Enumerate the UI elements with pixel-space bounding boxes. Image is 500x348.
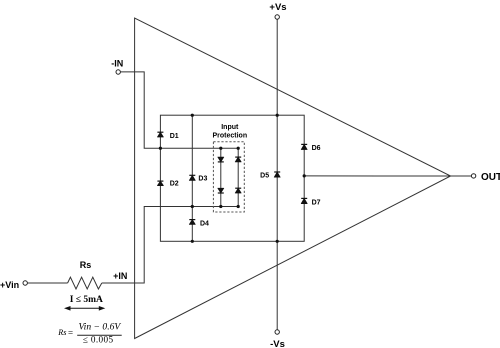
diode D1 [157, 132, 163, 137]
junction -Vs bottom rail [276, 240, 279, 243]
protection circuit outer box [160, 115, 304, 241]
diode D2 [157, 181, 163, 186]
diode D3 [189, 175, 195, 180]
terminal -Vs [275, 330, 279, 334]
junction -IN D1 D2 [159, 147, 162, 150]
label Input Protection [212, 124, 247, 140]
terminal OUT [471, 174, 475, 178]
terminal +Vs [275, 15, 279, 19]
svg-text:D6: D6 [312, 145, 321, 152]
clamp diode down lower-left [218, 188, 224, 193]
svg-text:+Vin: +Vin [0, 280, 19, 290]
svg-text:+IN: +IN [113, 271, 127, 281]
formula Rs = (Vin - 0.6V) / <=0.005 [57, 321, 121, 344]
svg-text:D7: D7 [312, 199, 321, 206]
op-amp U1 triangle body [135, 18, 451, 339]
svg-text:Input: Input [221, 124, 239, 131]
junction +Vs top rail [276, 114, 279, 117]
diode D6 [301, 144, 307, 149]
junction clamp top-right [237, 147, 240, 150]
svg-text:=: = [68, 327, 73, 337]
wire clamp left column [220, 148, 222, 206]
svg-text:-IN: -IN [111, 59, 123, 69]
wire tip to OUT terminal [451, 175, 472, 177]
junction D3 top rail [191, 114, 194, 117]
svg-text:+Vs: +Vs [269, 2, 286, 13]
junction clamp bottom-right [237, 205, 240, 208]
diode D4 [189, 220, 195, 225]
svg-text:Rs: Rs [80, 260, 92, 270]
svg-text:≤ 0.005: ≤ 0.005 [83, 335, 114, 345]
svg-text:OUT: OUT [481, 172, 500, 183]
wire output to triangle tip [304, 175, 450, 177]
svg-text:D3: D3 [198, 176, 207, 183]
clamp diode down upper-left [218, 157, 224, 162]
current range arrow [64, 306, 105, 311]
svg-text:Vin − 0.6V: Vin − 0.6V [79, 321, 122, 332]
diode D5 [274, 172, 280, 177]
resistor Rs [68, 277, 102, 289]
svg-text:D2: D2 [170, 181, 179, 188]
clamp diode up lower-right [235, 188, 241, 193]
wire -IN to protection box top node [120, 72, 238, 148]
svg-text:D1: D1 [170, 133, 179, 140]
wire clamp right column [237, 148, 239, 206]
terminal -IN [116, 70, 120, 74]
diode D7 [301, 198, 307, 203]
svg-text:Rs: Rs [57, 328, 66, 337]
svg-text:-Vs: -Vs [270, 339, 285, 348]
wire +Vs rail vertical [276, 19, 278, 329]
wire D3 D4 branch vertical [191, 115, 193, 241]
junction clamp top-left [219, 147, 222, 150]
wire +Vin to resistor [27, 282, 67, 284]
wire resistor to protection box bottom node [102, 207, 238, 284]
junction D4 bottom rail [191, 240, 194, 243]
terminal +Vin [23, 281, 27, 285]
svg-text:Protection: Protection [212, 133, 247, 140]
svg-text:D5: D5 [260, 172, 269, 179]
junction +IN D3 D4 [191, 205, 194, 208]
svg-text:I ≤ 5mA: I ≤ 5mA [70, 295, 103, 305]
junction output node [303, 174, 306, 177]
input protection dashed box [213, 142, 244, 212]
clamp diode up upper-right [235, 157, 241, 162]
svg-text:D4: D4 [200, 220, 209, 227]
junction clamp bottom-left [219, 205, 222, 208]
